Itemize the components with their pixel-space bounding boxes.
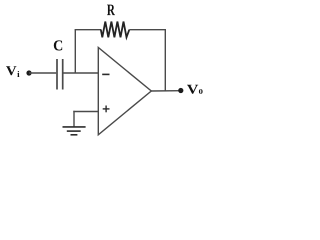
op-amp non-inverting input plus sign bbox=[103, 108, 110, 110]
wire feedback riser from input junction bbox=[74, 30, 76, 73]
wire ground riser bbox=[73, 111, 75, 127]
wire top feedback left segment bbox=[75, 29, 101, 31]
node Vo terminal dot bbox=[178, 88, 183, 93]
wire Vi dot to capacitor bbox=[29, 72, 56, 74]
ground symbol bbox=[63, 126, 86, 128]
label C bbox=[54, 40, 62, 50]
capacitor C plates bbox=[56, 59, 58, 90]
label Vo bbox=[187, 85, 198, 94]
label R bbox=[107, 5, 115, 16]
label Vi bbox=[6, 66, 17, 75]
wire capacitor to inverting input bbox=[64, 72, 99, 74]
op-amp inverting input minus sign bbox=[102, 73, 109, 75]
wire right feedback drop bbox=[164, 30, 166, 91]
resistor R zigzag bbox=[101, 22, 130, 38]
wire op-amp output bbox=[151, 90, 181, 92]
node Vi terminal dot bbox=[26, 70, 31, 75]
wire non-inverting input bbox=[73, 111, 98, 113]
wire top feedback right segment bbox=[129, 29, 166, 31]
op-amp triangle bbox=[98, 48, 151, 135]
